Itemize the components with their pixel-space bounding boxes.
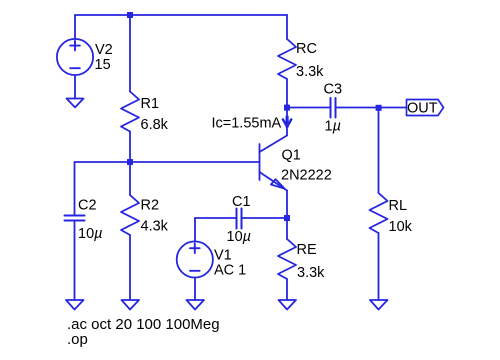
resistor R1 (121, 92, 139, 132)
capacitor C3 (331, 98, 336, 118)
svg-text:.op: .op (67, 331, 88, 348)
svg-text:RL: RL (389, 198, 408, 214)
transistor Q1 (260, 136, 288, 191)
svg-text:2N2222: 2N2222 (281, 167, 332, 183)
svg-text:1µ: 1µ (325, 119, 341, 135)
wire base rail (75, 161, 260, 163)
svg-text:10µ: 10µ (227, 229, 252, 245)
svg-text:3.3k: 3.3k (296, 64, 324, 80)
port flag OUT (407, 100, 444, 116)
resistor RL (370, 193, 388, 233)
wire V1 top lead (194, 218, 196, 242)
ground at V1 (187, 300, 205, 310)
ground at V2 (67, 99, 84, 108)
svg-text:C1: C1 (232, 194, 251, 210)
node junction C3 / RL / OUT (376, 105, 382, 111)
wire RE top lead (286, 218, 288, 239)
wire R1 top lead (129, 15, 131, 92)
wire RL bottom lead (378, 233, 380, 300)
wire RE bottom lead (286, 279, 288, 300)
node junction base rail (127, 159, 133, 165)
wire C2 bottom lead (74, 221, 76, 301)
resistor RC (278, 39, 296, 79)
wire V1 bottom lead (194, 278, 196, 301)
ground at RE (279, 300, 297, 310)
wire C2 top lead (74, 162, 76, 216)
svg-text:4.3k: 4.3k (141, 219, 169, 235)
wire V2 top lead (74, 15, 76, 39)
wire V2 bottom lead (74, 75, 76, 98)
wire C3 to OUT (336, 107, 407, 109)
ground at R2 (122, 300, 140, 310)
voltage source V2 (57, 39, 93, 75)
node junction collector / C3 (284, 105, 290, 111)
current annotation arrow (283, 117, 291, 127)
resistor R2 (121, 195, 139, 235)
voltage source V1 (177, 241, 213, 277)
wire collector lead (286, 108, 288, 136)
wire C1 to emitter node (242, 217, 288, 219)
svg-text:10µ: 10µ (78, 226, 103, 242)
svg-text:3.3k: 3.3k (297, 265, 325, 281)
svg-text:R1: R1 (141, 96, 160, 112)
svg-text:.ac oct 20 100 100Meg: .ac oct 20 100 100Meg (67, 316, 220, 333)
svg-text:Ic=1.55mA: Ic=1.55mA (212, 116, 282, 132)
svg-text:10k: 10k (389, 219, 413, 235)
svg-text:RE: RE (297, 242, 317, 258)
svg-text:AC 1: AC 1 (214, 263, 246, 279)
node junction top rail / R1 (127, 12, 133, 18)
svg-text:V2: V2 (95, 42, 113, 58)
node junction emitter / C1 / RE (284, 215, 290, 221)
wire collector node to C3 (287, 107, 331, 109)
svg-text:15: 15 (95, 57, 111, 73)
wire R2 top lead (129, 162, 131, 195)
ground at RL (370, 300, 388, 310)
wire RC top lead (286, 15, 288, 39)
wire RC bottom lead (286, 79, 288, 108)
wire R1 bottom lead (129, 132, 131, 163)
svg-text:OUT: OUT (407, 101, 438, 117)
svg-text:C2: C2 (78, 198, 97, 214)
wire emitter lead (286, 191, 288, 219)
ground at C2 (66, 300, 84, 310)
svg-text:RC: RC (296, 41, 317, 57)
wire RL top lead (378, 108, 380, 194)
capacitor C1 (237, 209, 242, 229)
resistor RE (278, 239, 296, 279)
wire R2 bottom lead (129, 235, 131, 300)
svg-text:C3: C3 (324, 82, 343, 98)
svg-text:R2: R2 (141, 198, 160, 214)
wire top rail from V2 to RC (75, 14, 287, 16)
svg-text:V1: V1 (214, 248, 232, 264)
svg-text:6.8k: 6.8k (141, 117, 169, 133)
wire V1 to C1 (195, 217, 237, 219)
capacitor C2 (65, 216, 85, 221)
svg-text:Q1: Q1 (282, 147, 301, 163)
